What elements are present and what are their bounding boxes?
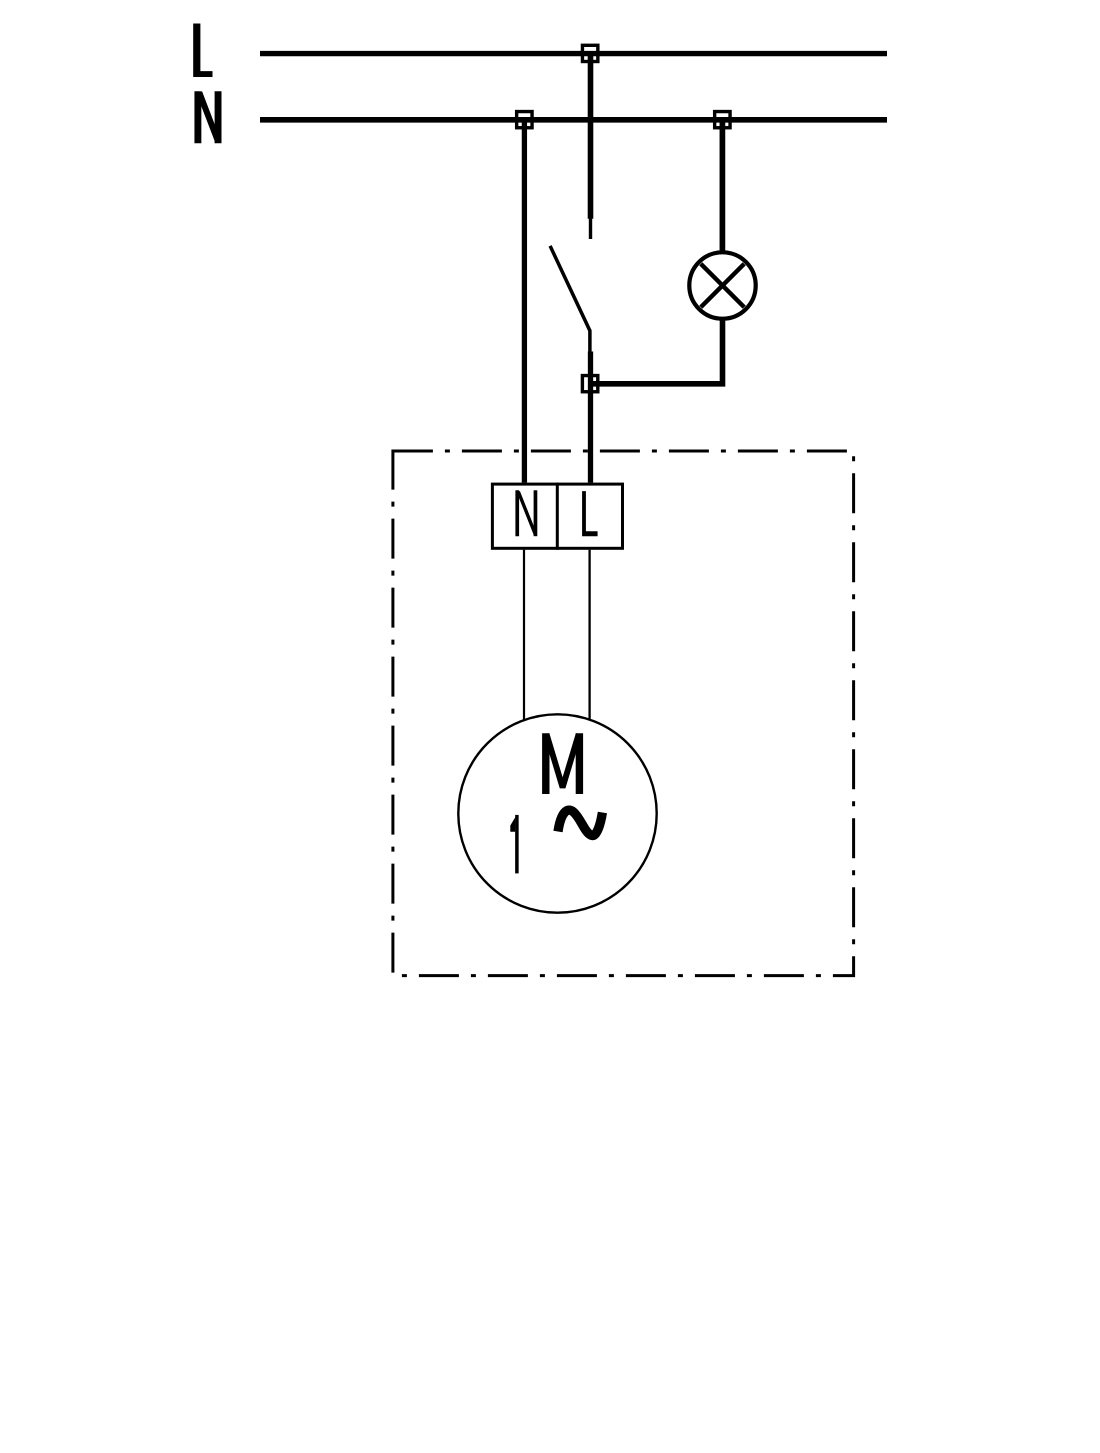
lamp E1 cross — [701, 264, 744, 307]
terminal block outline — [492, 484, 622, 548]
terminal block divider — [556, 483, 559, 550]
wire N bus — [260, 117, 887, 123]
wire N bus down to lamp — [720, 117, 726, 253]
motor label ~ (AC) — [558, 810, 602, 835]
node square on N bus right — [715, 112, 730, 128]
terminal label N — [517, 490, 535, 536]
node square below switch — [582, 376, 597, 392]
enclosure dash-dot boundary — [393, 451, 854, 976]
wire terminal L to motor — [588, 550, 590, 720]
lamp E1 circle — [689, 252, 755, 318]
wire terminal N to motor — [523, 550, 525, 720]
wire N bus down to terminal N — [522, 117, 527, 483]
wire from L bus down to switch contact — [588, 51, 594, 219]
label N (neutral conductor) — [198, 91, 218, 143]
node square on N bus left — [517, 112, 532, 128]
wire switch lower contact to terminal L — [588, 352, 593, 483]
terminal label L — [582, 491, 598, 536]
wire L bus — [260, 51, 887, 56]
motor label 1 (single phase) — [510, 815, 517, 874]
motor M1 circle — [458, 714, 656, 912]
motor label M — [546, 733, 580, 794]
wire lamp to switch node (corner) — [588, 319, 723, 384]
node square on L bus — [582, 45, 597, 61]
wire thin upper switch contact — [589, 218, 592, 239]
label L (line conductor) — [193, 24, 212, 78]
switch S blade — [550, 246, 590, 353]
